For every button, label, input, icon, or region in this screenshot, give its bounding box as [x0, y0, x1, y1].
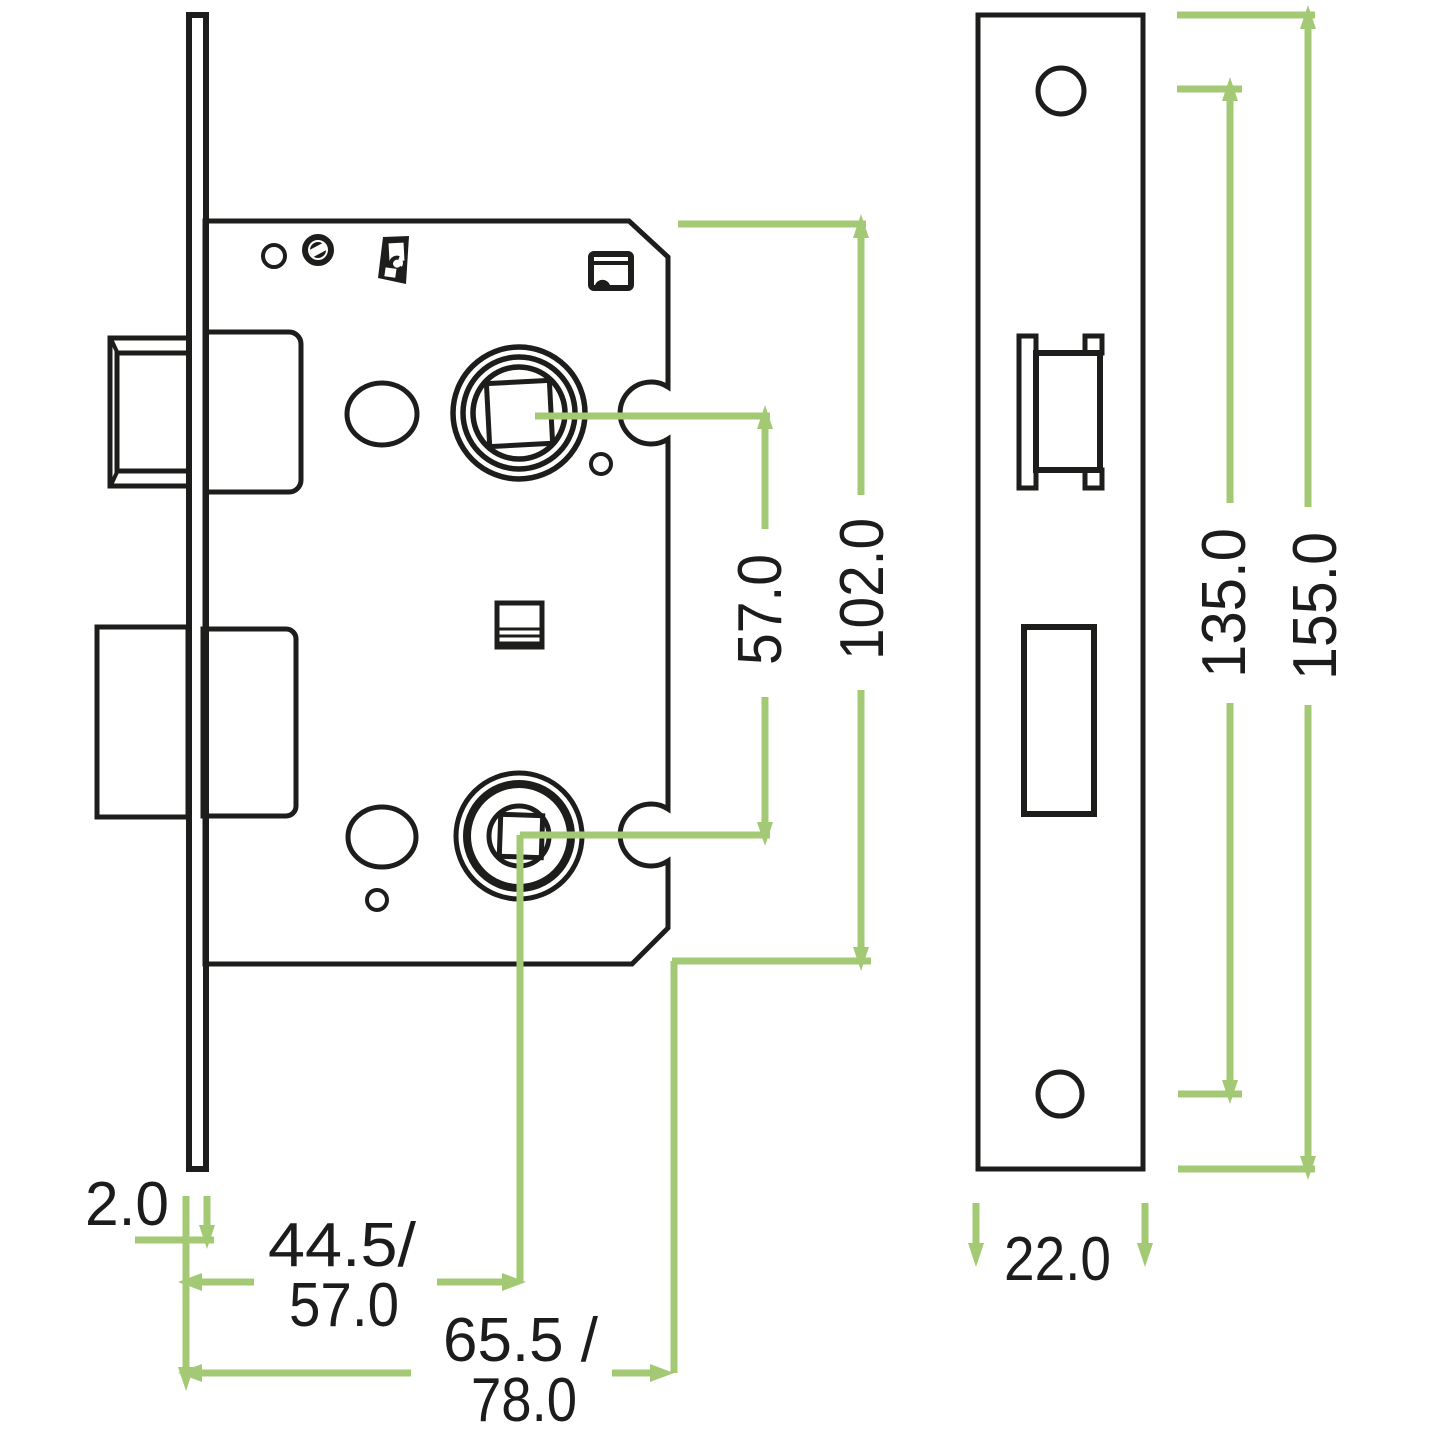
dim 22.0 right line: [1142, 1203, 1149, 1245]
dim 102.0 bottom leader: [672, 958, 871, 965]
dim 135.0 bottom leader: [1178, 1091, 1242, 1098]
forend follower cutout centre: [1036, 353, 1100, 470]
svg-text:57.0: 57.0: [726, 554, 795, 665]
dim 57.0 top leader: [535, 413, 770, 420]
latch bolt head bevel: [117, 353, 189, 471]
forend bottom screw hole: [1038, 1072, 1082, 1116]
small hole right of follower: [591, 454, 611, 474]
rivet with square: [305, 237, 331, 263]
dim 57.0 bottom leader: [520, 832, 770, 839]
svg-text:57.0: 57.0: [289, 1271, 399, 1340]
ellipse hole bottom: [348, 807, 416, 867]
middle square icon: [497, 603, 542, 647]
deadbolt head: [97, 627, 188, 817]
spring lever icon: [378, 236, 409, 284]
bottom follower rings: [456, 773, 582, 899]
dim 2.0 left extension: [183, 1196, 190, 1380]
lock body outline: [205, 221, 668, 964]
dim 135.0 top leader: [1177, 86, 1242, 93]
dim 65.5/78.0 line: [186, 1370, 411, 1377]
backset extension line: [517, 835, 524, 1282]
top follower rings: [453, 347, 585, 479]
faceplate (2.0 thick): [189, 15, 206, 1169]
forend follower cutout bottom tab: [1085, 470, 1102, 488]
svg-text:65.5 /: 65.5 /: [443, 1306, 599, 1375]
dim 155.0 bottom leader: [1178, 1166, 1315, 1173]
deadbolt body: [203, 629, 296, 816]
latch bolt head outer: [110, 338, 189, 486]
dim 155.0 top leader: [1177, 12, 1315, 19]
box icon top right: [591, 254, 631, 288]
svg-text:102.0: 102.0: [828, 518, 897, 660]
dim 22.0 left line: [973, 1203, 980, 1245]
dim 135.0 line: [1227, 89, 1234, 503]
forend top screw hole: [1038, 68, 1084, 114]
latch bolt body: [205, 332, 301, 492]
dim 102.0 top leader: [678, 221, 866, 228]
svg-text:78.0: 78.0: [471, 1366, 577, 1429]
dim 2.0 right extension: [204, 1196, 211, 1232]
dim 44.5/57.0 line: [186, 1279, 254, 1286]
dim 102.0 line: [858, 224, 865, 495]
forend follower cutout top tab: [1085, 336, 1102, 353]
case depth extension line: [671, 961, 678, 1373]
forend bolt cutout: [1024, 627, 1094, 814]
svg-text:44.5/: 44.5/: [268, 1211, 417, 1280]
small hole top-left: [263, 245, 285, 267]
dim 57.0 line: [762, 416, 769, 529]
forend plate: [978, 15, 1143, 1169]
top follower square: [486, 380, 552, 446]
forend follower cutout left slot: [1019, 336, 1036, 488]
svg-text:155.0: 155.0: [1281, 532, 1350, 680]
svg-text:2.0: 2.0: [85, 1170, 169, 1239]
svg-text:135.0: 135.0: [1190, 528, 1259, 678]
svg-text:22.0: 22.0: [1004, 1225, 1111, 1294]
ellipse hole top: [347, 383, 417, 445]
dim 2.0 leader: [135, 1237, 214, 1244]
bottom follower square: [499, 814, 542, 857]
dim 155.0 line: [1305, 15, 1312, 507]
small hole bottom: [367, 890, 387, 910]
